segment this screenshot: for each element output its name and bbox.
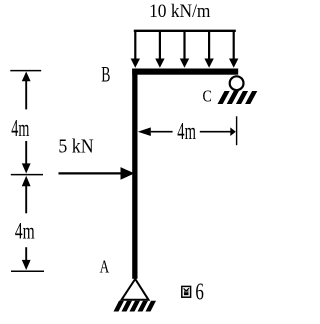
svg-text:4m: 4m [15, 219, 35, 245]
svg-text:5 kN: 5 kN [58, 136, 94, 158]
svg-text:A: A [100, 258, 110, 277]
svg-text:C: C [203, 87, 212, 105]
svg-text:B: B [101, 62, 110, 86]
svg-text:4m: 4m [11, 115, 29, 142]
svg-text:4m: 4m [177, 119, 196, 146]
svg-text:10 kN/m: 10 kN/m [149, 0, 210, 21]
svg-text:6: 6 [195, 278, 204, 306]
